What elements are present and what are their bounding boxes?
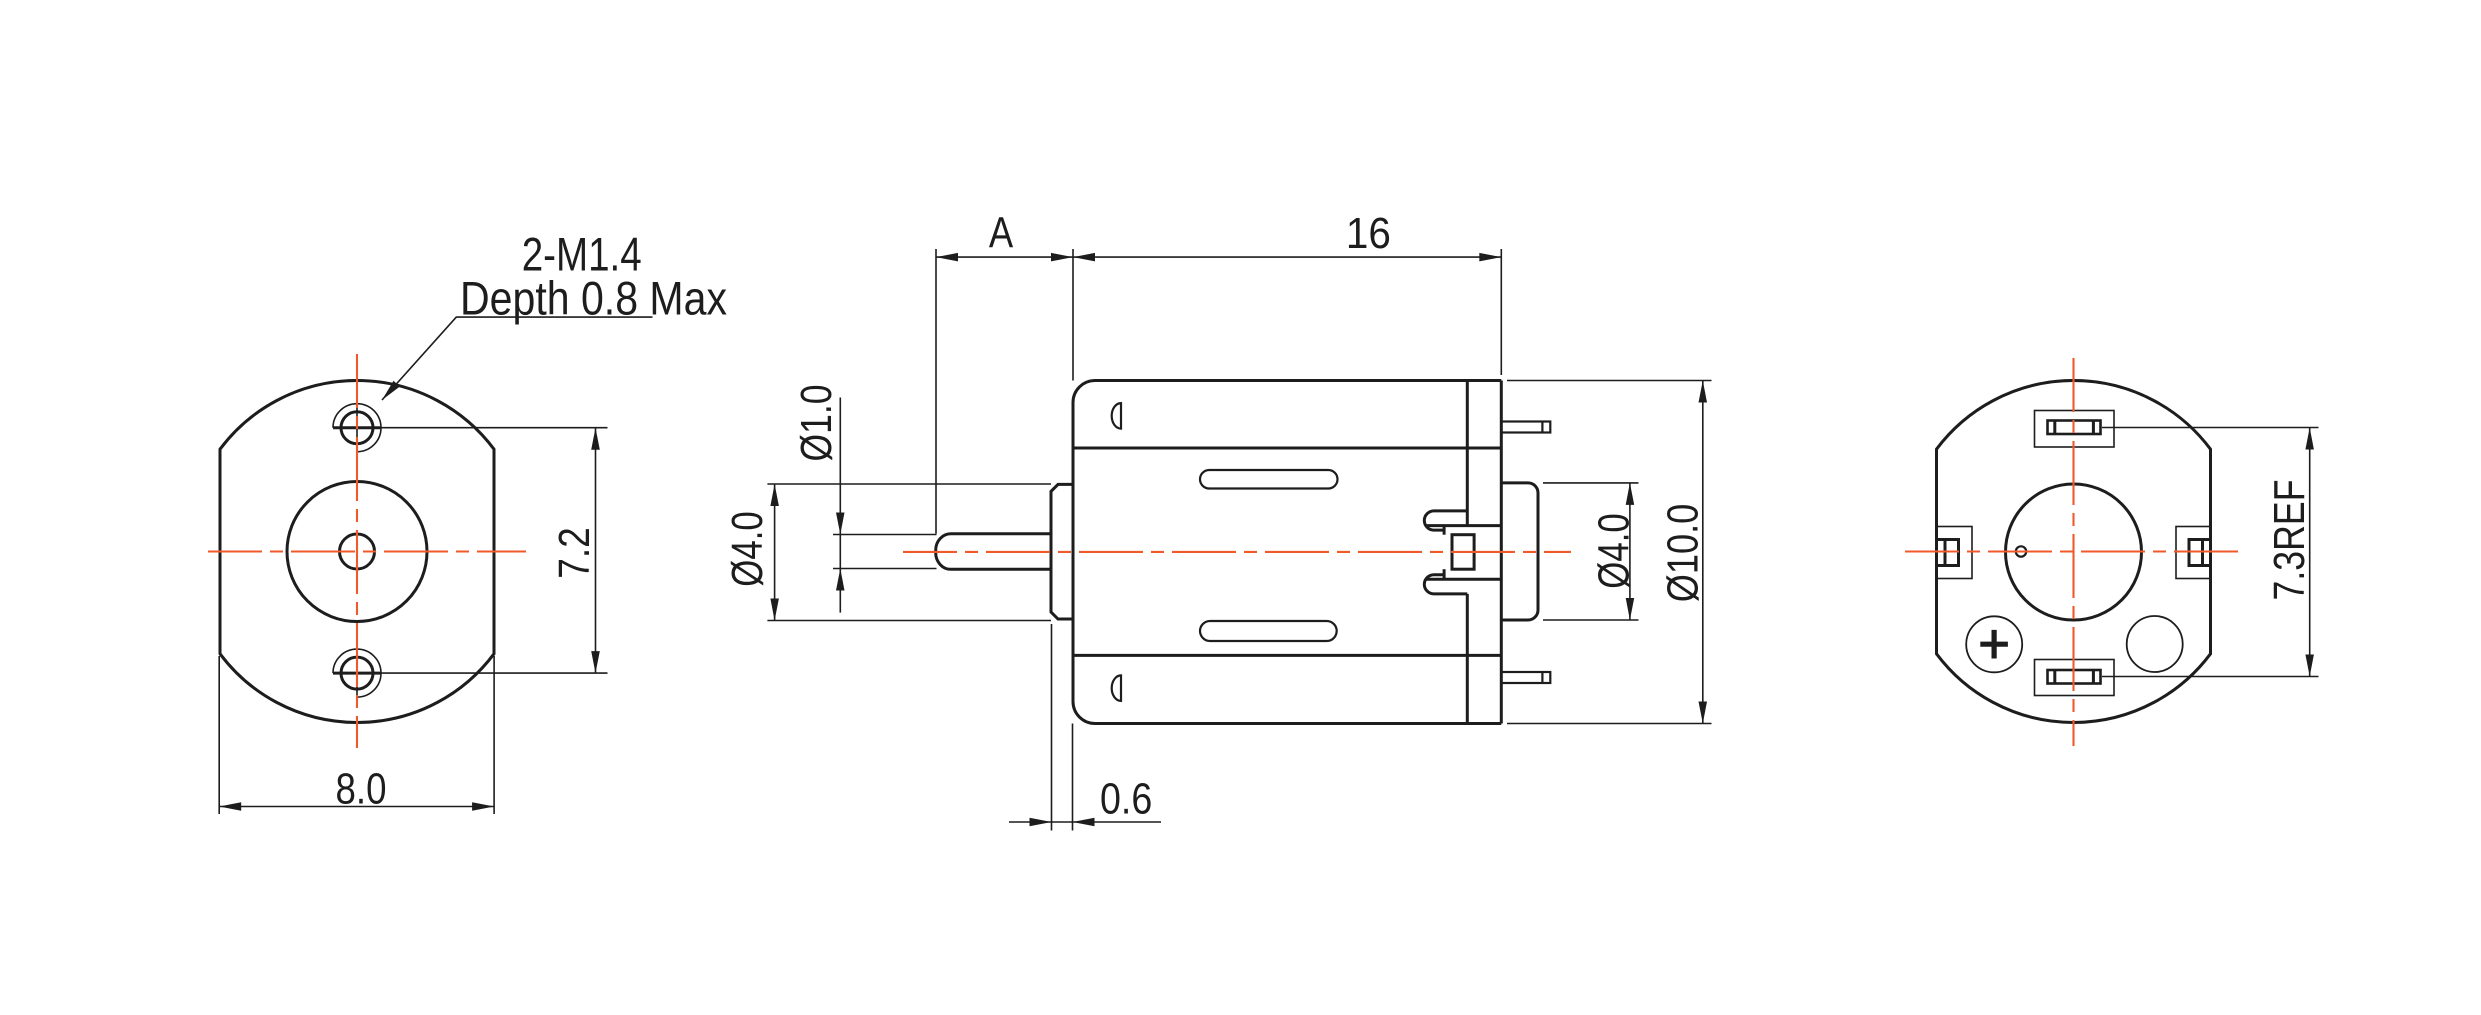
- svg-text:0.6: 0.6: [1100, 775, 1152, 824]
- svg-text:Ø4.0: Ø4.0: [723, 511, 772, 586]
- svg-text:Ø1.0: Ø1.0: [792, 385, 841, 462]
- svg-text:7.3REF: 7.3REF: [2265, 480, 2314, 601]
- svg-text:16: 16: [1346, 209, 1391, 258]
- svg-text:7.2: 7.2: [550, 527, 599, 579]
- svg-text:Ø10.0: Ø10.0: [1659, 504, 1708, 603]
- svg-text:A: A: [989, 209, 1014, 258]
- svg-text:8.0: 8.0: [336, 765, 387, 814]
- svg-text:Ø4.0: Ø4.0: [1590, 513, 1639, 588]
- svg-text:Depth 0.8 Max: Depth 0.8 Max: [460, 273, 727, 326]
